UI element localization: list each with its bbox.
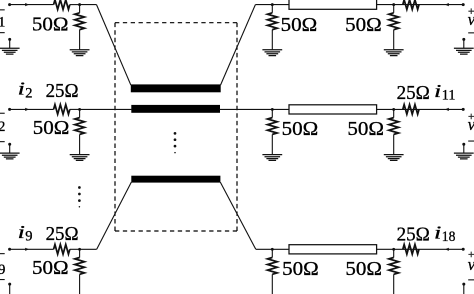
resistor 50Ω shunt (row 1 right outer) (389, 5, 399, 50)
svg-text:50Ω: 50Ω (33, 117, 70, 139)
node: junction (271, 108, 274, 111)
node: port 18 terminal (462, 248, 465, 251)
ground (port 10) (454, 48, 474, 54)
current arrow i11 (leftward) (445, 108, 449, 111)
resistor 50Ω shunt (row 9 left) (75, 249, 85, 294)
wire from coupled line 2 to transmission line (219, 108, 289, 110)
resistor 50Ω shunt (row 9 right outer) (389, 249, 399, 294)
svg-text:25Ω: 25Ω (397, 224, 430, 246)
label v18 plus (cut at edge) (468, 252, 474, 258)
ground (port 11) (454, 153, 474, 159)
svg-text:1: 1 (0, 14, 5, 30)
resistor 50Ω shunt (row 2 right inner) (268, 109, 278, 154)
resistor 25Ω series (row 9 right) (403, 245, 419, 255)
svg-text:i: i (434, 82, 441, 102)
wire stub (463, 284, 465, 294)
svg-text:50Ω: 50Ω (345, 14, 382, 36)
label v2 plus tick (cut at edge) (0, 113, 5, 114)
node: port 2 lower terminal (8, 143, 11, 146)
node: junction (392, 3, 395, 6)
resistor 50Ω shunt (row 9 right inner) (268, 249, 278, 294)
resistor 25Ω series (row 1 left) (54, 0, 70, 9)
svg-text:50Ω: 50Ω (282, 118, 319, 140)
resistor 25Ω series (row 2 left) (54, 105, 70, 115)
current arrow i9 (rightward) (25, 248, 29, 251)
node: junction (78, 248, 81, 251)
svg-text:50Ω: 50Ω (281, 14, 318, 36)
label v11 plus (cut at edge) (468, 114, 474, 120)
ground (row 2 left shunt) (70, 155, 90, 161)
svg-text:2: 2 (0, 119, 5, 135)
label v10 minus (cut at edge) (468, 32, 474, 33)
transmission line (row 9) (289, 245, 377, 254)
label v1 plus tick (cut at edge) (0, 9, 5, 10)
coupled line 9 (thick bar) (131, 176, 220, 183)
node: port 11 terminal (462, 108, 465, 111)
ground (row 2 right inner shunt) (262, 155, 282, 161)
wire to slant (80, 4, 97, 6)
svg-text:50Ω: 50Ω (282, 258, 319, 280)
node: port 1 upper terminal (8, 3, 11, 6)
node: port 9 upper terminal (8, 248, 11, 251)
wire (255, 4, 289, 6)
transmission line (row 2) (289, 105, 377, 114)
svg-text:9: 9 (0, 262, 5, 278)
resistor 50Ω shunt (row 1 left) (75, 5, 85, 50)
label v18 minus (cut at edge) (468, 279, 474, 280)
node: junction (78, 3, 81, 6)
wire (377, 4, 464, 6)
ground (row 1 right outer shunt) (384, 50, 404, 56)
label v10 plus (cut at edge) (468, 8, 474, 14)
ground (row 1 right inner shunt) (262, 50, 282, 56)
svg-text:v: v (468, 255, 474, 274)
svg-text:2: 2 (25, 86, 32, 102)
label v1 minus tick (cut at edge) (0, 32, 5, 33)
svg-text:25Ω: 25Ω (46, 80, 79, 102)
wire: slant up to coupled line 9 (97, 182, 132, 249)
wire: port 9 input feed (10, 248, 54, 250)
wire stub (9, 144, 11, 153)
resistor 25Ω series (row 2 right) (403, 105, 419, 115)
label v9 plus tick (cut at edge) (0, 253, 5, 254)
current arrow i2 (rightward) (25, 108, 29, 111)
wire into box to coupled line 2 (80, 108, 132, 110)
vdots inside box (174, 132, 177, 153)
node: port 10 lower terminal (462, 38, 465, 41)
svg-text:50Ω: 50Ω (32, 13, 69, 35)
ground (row 1 left shunt) (70, 50, 90, 56)
wire stub (9, 39, 11, 48)
node: junction (392, 108, 395, 111)
dashed box: coupled-line network (115, 23, 237, 231)
node: port 1 lower terminal (8, 38, 11, 41)
wire (70, 248, 80, 250)
wire stub (9, 284, 11, 294)
node: junction (271, 3, 274, 6)
wire: port 2 input feed (10, 108, 54, 110)
svg-text:50Ω: 50Ω (345, 258, 382, 280)
ground (row 2 right outer shunt) (384, 155, 404, 161)
svg-text:v: v (468, 115, 474, 134)
wire to slant (80, 248, 97, 250)
wire: port 1 input feed (10, 4, 54, 6)
wire (377, 108, 464, 110)
wire stub (463, 144, 465, 153)
wire (377, 248, 464, 250)
current arrow i1 (rightward) (25, 3, 29, 6)
vdots left port column (78, 186, 81, 207)
coupled line 2 (thick bar) (131, 105, 220, 113)
current arrow i10 (leftward) (445, 3, 449, 6)
resistor 25Ω series (row 9 left) (54, 245, 70, 255)
wire (256, 248, 289, 250)
current arrow i18 (leftward) (445, 248, 449, 251)
node: port 9 lower terminal (8, 283, 11, 286)
wire: slant up from coupled line 1 (221, 5, 256, 86)
transmission line (row 1) (289, 0, 377, 9)
wire (70, 108, 80, 110)
ground (port 2) (0, 153, 20, 159)
label v2 minus tick (cut at edge) (0, 141, 5, 142)
wire: slant down from coupled line 9 (220, 182, 256, 249)
node: port 2 upper terminal (8, 108, 11, 111)
svg-text:i: i (434, 223, 441, 243)
svg-text:25Ω: 25Ω (397, 82, 430, 104)
resistor 50Ω shunt (row 1 right inner) (268, 5, 278, 50)
resistor 25Ω series (row 1 right) (403, 0, 419, 9)
svg-text:25Ω: 25Ω (46, 223, 79, 245)
wire stub (463, 39, 465, 48)
node: port 10 terminal (462, 3, 465, 6)
node: junction (392, 248, 395, 251)
node: port 11 lower terminal (462, 143, 465, 146)
node: port 18 lower terminal (462, 283, 465, 286)
resistor 50Ω shunt (row 2 right outer) (389, 109, 399, 154)
svg-text:11: 11 (442, 88, 456, 104)
label v9 minus tick (cut at edge) (0, 279, 5, 280)
svg-text:50Ω: 50Ω (32, 257, 69, 279)
svg-text:9: 9 (25, 229, 32, 245)
wire (70, 4, 80, 6)
svg-text:18: 18 (442, 229, 456, 245)
svg-text:i: i (18, 79, 25, 99)
coupled line 1 (thick bar) (131, 84, 221, 92)
svg-text:v: v (468, 10, 474, 29)
ground (port 1) (0, 48, 20, 54)
node: junction (271, 248, 274, 251)
label v11 minus (cut at edge) (468, 141, 474, 142)
svg-text:i: i (18, 222, 25, 242)
wire: slant down to coupled line 1 (97, 5, 131, 86)
node: junction (78, 108, 81, 111)
svg-text:50Ω: 50Ω (347, 118, 384, 140)
resistor 50Ω shunt (row 2 left) (75, 109, 85, 154)
